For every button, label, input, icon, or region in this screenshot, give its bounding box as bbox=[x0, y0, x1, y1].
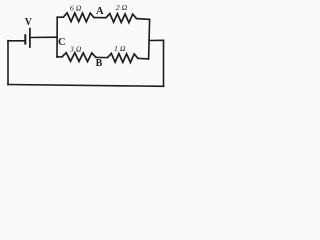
svg-text:V: V bbox=[25, 17, 33, 28]
battery V: short plate bbox=[24, 34, 26, 44]
resistor 3 ohm bbox=[62, 53, 96, 62]
wire: 1ohm to right inner vertical bbox=[138, 57, 149, 60]
resistor 6 ohm bbox=[63, 13, 94, 22]
wire: bottom horizontal bbox=[8, 85, 164, 87]
svg-text:2 Ω: 2 Ω bbox=[116, 3, 128, 12]
svg-text:6 Ω: 6 Ω bbox=[70, 3, 82, 12]
svg-text:B: B bbox=[96, 58, 103, 69]
wire: right inner vertical (junction of branches) bbox=[149, 19, 150, 59]
wire: tee to outer loop bbox=[150, 39, 164, 41]
svg-text:1 Ω: 1 Ω bbox=[114, 44, 126, 53]
resistor 2 ohm bbox=[106, 14, 137, 23]
wire: node C to resistor 3ohm bbox=[57, 56, 62, 58]
svg-text:3 Ω: 3 Ω bbox=[69, 45, 82, 54]
wire: node B (between 3ohm and 1ohm) bbox=[96, 56, 108, 58]
wire: left vertical to battery bbox=[8, 40, 25, 42]
battery V: long plate bbox=[29, 28, 31, 48]
wire: node A (between 6ohm and 2ohm) bbox=[94, 17, 106, 19]
svg-text:C: C bbox=[58, 37, 66, 48]
wire: left vertical bbox=[7, 41, 9, 85]
wire: 2ohm to right inner vertical bbox=[137, 18, 150, 21]
resistor 1 ohm bbox=[108, 53, 139, 62]
wire: battery to node C bbox=[30, 36, 57, 38]
wire: node C to resistor 6ohm bbox=[57, 16, 63, 18]
svg-text:A: A bbox=[96, 6, 104, 17]
wire: right outer vertical bbox=[163, 40, 165, 86]
node C vertical wire bbox=[56, 17, 58, 57]
